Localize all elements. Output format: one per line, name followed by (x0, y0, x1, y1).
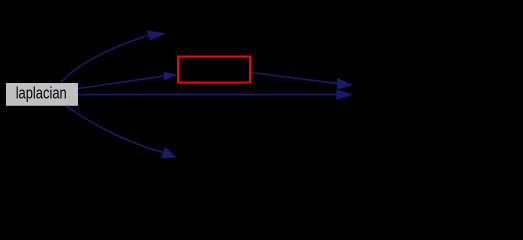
edge laplacian -> red node (wire) (78, 72, 177, 89)
edge red node -> right upper node (wire) (251, 73, 352, 90)
edge laplacian -> top node (wire) (60, 31, 165, 83)
edge laplacian -> right lower node (wire) (78, 90, 352, 100)
node laplacian (6, 83, 78, 106)
edge laplacian -> bottom node (wire) (66, 106, 177, 158)
node (red, truncated) (178, 57, 250, 83)
svg-text:laplacian: laplacian (16, 84, 67, 102)
